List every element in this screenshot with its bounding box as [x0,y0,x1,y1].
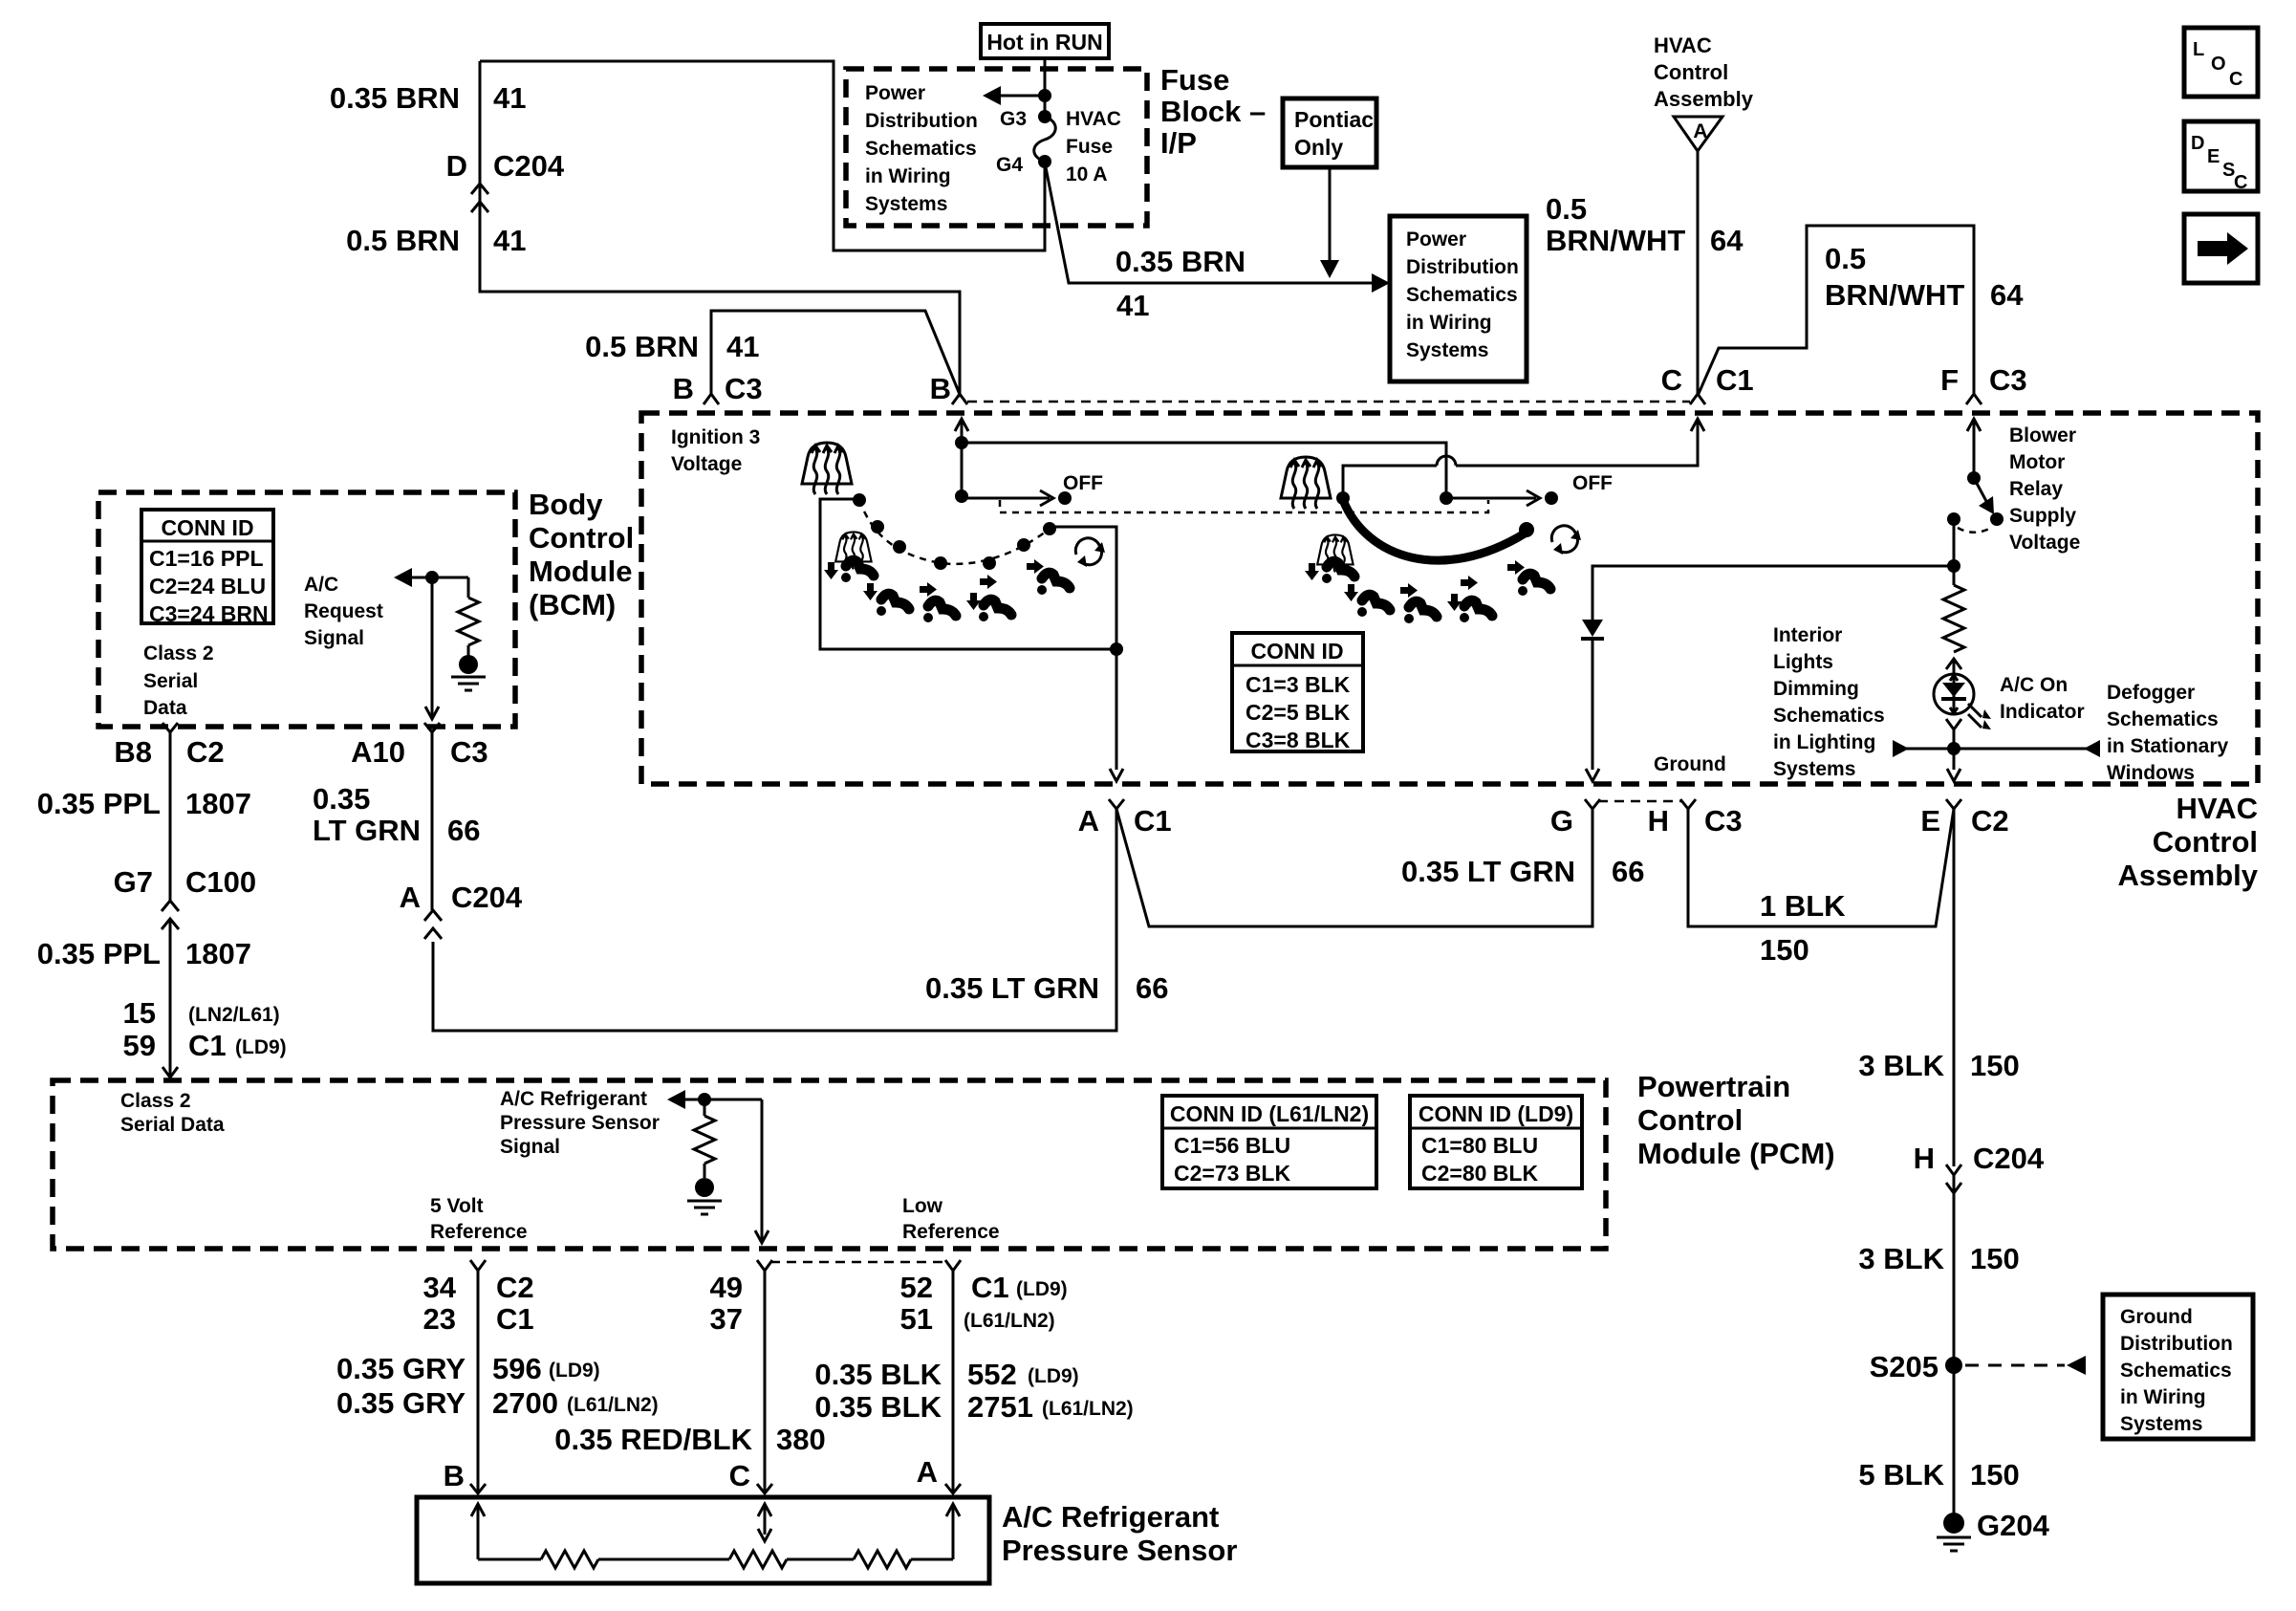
svg-text:C1: C1 [1134,804,1172,838]
svg-text:in Wiring: in Wiring [1406,312,1492,334]
node mode feed [1440,491,1453,505]
connector B chevron [470,1484,486,1493]
box Power Distribution Schematics in Wiring Systems [1390,216,1527,381]
svg-text:41: 41 [493,224,526,257]
box CONN ID (LD9) [1410,1096,1582,1188]
wire relay contact down [1953,519,1956,585]
wire feed from C1 into box [1691,419,1704,431]
svg-text:(LD9): (LD9) [1028,1365,1079,1387]
svg-text:0.35 GRY: 0.35 GRY [336,1352,466,1385]
triangle A [1674,117,1722,151]
svg-text:C100: C100 [185,865,256,899]
svg-text:0.35 LT GRN: 0.35 LT GRN [925,971,1099,1005]
svg-text:C: C [2234,172,2247,193]
dashed travel arc with position dots [859,500,1050,564]
icon mode seat 4b [1460,600,1492,622]
svg-text:Schematics: Schematics [1406,284,1518,306]
svg-text:Voltage: Voltage [671,453,742,475]
svg-text:Motor: Motor [2009,451,2065,473]
svg-text:H: H [1914,1142,1935,1175]
svg-text:L: L [2193,39,2204,60]
svg-text:BRN/WHT: BRN/WHT [1546,224,1685,257]
svg-text:Power: Power [865,82,925,104]
svg-text:0.35 PPL: 0.35 PPL [37,937,161,970]
icon recirculation [1075,538,1105,567]
box Body Control Module dashed [98,492,515,727]
connector 49 / 37 [757,1260,772,1271]
svg-text:C3: C3 [1704,804,1743,838]
svg-text:0.35 RED/BLK: 0.35 RED/BLK [554,1423,752,1456]
svg-text:Indicator: Indicator [2000,701,2085,723]
svg-text:Control: Control [1637,1103,1743,1137]
box Powertrain Control Module dashed [53,1080,1606,1249]
icon mode vent arrow 2 [1400,583,1418,598]
svg-text:Hot in RUN: Hot in RUN [986,30,1102,54]
connector chevron below LED [1946,719,1961,729]
node junction [955,436,968,449]
box A/C Refrigerant Pressure Sensor [417,1497,989,1583]
wire 0.35 BRN 41 from fuse to power distribution [1045,163,1373,283]
box CONN ID (BCM) [141,510,273,623]
svg-text:0.5 BRN: 0.5 BRN [585,330,699,363]
svg-text:150: 150 [1760,933,1809,967]
svg-text:0.35 BLK: 0.35 BLK [814,1358,942,1391]
svg-text:B8: B8 [114,735,152,769]
svg-text:in Wiring: in Wiring [2120,1386,2206,1408]
svg-text:41: 41 [1116,289,1149,322]
svg-text:Module (PCM): Module (PCM) [1637,1137,1835,1170]
box Pontiac Only [1283,98,1376,167]
icon recirculation [1551,526,1581,555]
icon mode feet arrow [863,583,877,600]
svg-text:2751: 2751 [967,1390,1033,1424]
relay switch arm [1967,471,1981,485]
svg-text:G4: G4 [996,154,1023,176]
svg-text:Reference: Reference [430,1221,528,1243]
svg-text:C3: C3 [1989,363,2027,397]
ground (BCM internal) [459,655,478,674]
wire A/C request down [431,577,434,717]
svg-text:Relay: Relay [2009,478,2063,500]
box Ground Distribution Schematics in Wiring Systems [2103,1295,2253,1439]
svg-text:0.35 BRN: 0.35 BRN [1116,245,1245,278]
svg-text:52: 52 [900,1271,933,1304]
potentiometer resistors [478,1558,541,1561]
wire 0.35 LT GRN 66 down to C204 [431,732,434,910]
svg-text:59: 59 [123,1029,156,1062]
connector H C3 [1680,799,1696,809]
svg-text:1807: 1807 [185,787,251,820]
svg-text:Power: Power [1406,229,1466,250]
svg-text:Distribution: Distribution [865,110,978,132]
svg-text:Signal: Signal [304,627,364,649]
svg-text:C3: C3 [450,735,488,769]
svg-text:Control: Control [2153,825,2258,859]
resistor dimming [1943,585,1964,652]
svg-text:552: 552 [967,1358,1017,1391]
svg-text:Signal: Signal [500,1136,560,1158]
svg-text:C1: C1 [188,1029,227,1062]
svg-text:C1=16 PPL: C1=16 PPL [149,546,264,571]
svg-text:CONN ID (L61/LN2): CONN ID (L61/LN2) [1170,1101,1369,1126]
svg-text:Pressure Sensor: Pressure Sensor [1002,1534,1237,1567]
connector B C3 chevron [704,394,719,404]
svg-text:C: C [1661,363,1682,397]
icon mode bilevel arrow down 2 [1447,594,1462,611]
node S205 [1945,1357,1962,1374]
svg-text:C: C [2229,69,2242,90]
svg-text:Systems: Systems [1406,339,1488,361]
svg-text:596: 596 [492,1352,542,1385]
svg-text:LT GRN: LT GRN [313,814,421,847]
connector A C1 [1109,799,1124,809]
svg-text:Control: Control [1654,60,1728,84]
svg-text:66: 66 [1612,855,1644,888]
svg-text:C3=24 BRN: C3=24 BRN [149,601,269,626]
svg-text:(LD9): (LD9) [235,1036,287,1058]
wire 0.35 LT GRN 66 from A C1 down to BCM loop [433,809,1116,1031]
svg-text:Interior: Interior [1773,624,1842,646]
icon mode seat 5 [1037,573,1070,595]
icon mode bilevel arrow right [980,575,997,589]
svg-text:Systems: Systems [1773,758,1855,780]
svg-text:C2: C2 [1971,804,2009,838]
sensor internal wiring [471,1504,485,1516]
connector A10 C3 [424,723,440,732]
icon mode defrost-feet arrow 2 [1305,563,1319,580]
svg-text:Only: Only [1294,135,1343,160]
svg-text:Class 2: Class 2 [120,1090,191,1112]
icon mode vent arrow [920,582,937,597]
svg-text:C1=3 BLK: C1=3 BLK [1245,672,1351,697]
box LOC [2184,28,2258,97]
svg-text:64: 64 [1710,224,1744,257]
svg-text:Systems: Systems [865,193,947,215]
svg-text:Data: Data [143,697,187,719]
thin dashed 49-52 link [770,1261,947,1264]
fuse F HVAC 10 A [1038,110,1051,123]
node wiper feed [955,490,968,503]
svg-text:Schematics: Schematics [2107,708,2219,730]
svg-text:in Wiring: in Wiring [865,165,951,187]
svg-text:G3: G3 [1000,108,1027,130]
connector 59 C1 into PCM [162,1067,178,1078]
svg-text:Voltage: Voltage [2009,532,2080,554]
connector G [1585,799,1600,809]
svg-text:Supply: Supply [2009,505,2076,527]
icon defrost small [1317,534,1353,572]
svg-text:380: 380 [776,1423,826,1456]
svg-text:B: B [673,372,694,405]
svg-text:Class 2: Class 2 [143,642,214,664]
wire signal down [761,1099,764,1241]
wire Pontiac Only arrow down [1329,167,1332,260]
wire down to E C2 [1947,769,1960,781]
svg-text:34: 34 [423,1271,457,1304]
svg-text:23: 23 [423,1302,456,1336]
svg-text:66: 66 [1136,971,1168,1005]
wire 0.5 BRN 41 from D C204 down to B C3 branch [480,61,960,394]
svg-text:5 BLK: 5 BLK [1858,1458,1944,1491]
svg-text:Ignition 3: Ignition 3 [671,426,760,448]
svg-text:C2: C2 [496,1271,534,1304]
svg-text:37: 37 [710,1302,743,1336]
svg-text:F: F [1940,363,1959,397]
dashed line to ground distribution [1965,1364,2065,1367]
connector A chevron [945,1484,961,1493]
svg-text:HVAC: HVAC [1066,108,1121,130]
svg-text:D: D [2191,133,2204,154]
wire dimming reference line [1897,748,2100,751]
svg-text:C2=5 BLK: C2=5 BLK [1245,700,1351,725]
wire 0.5 BRN 41 inner branch to B C3 [711,311,961,397]
wire 0.35 RED/BLK 380 [764,1271,767,1493]
icon mode seat 3b [1404,601,1437,623]
svg-text:Powertrain: Powertrain [1637,1070,1790,1103]
wire feed from F into box [1967,419,1981,431]
svg-text:Pressure Sensor: Pressure Sensor [500,1112,660,1134]
svg-text:G204: G204 [1977,1509,2050,1542]
svg-text:CONN ID (LD9): CONN ID (LD9) [1419,1101,1573,1126]
wire hop over [1437,456,1456,466]
svg-text:C204: C204 [1973,1142,2045,1175]
svg-text:15: 15 [123,996,156,1030]
svg-text:C1=56 BLU: C1=56 BLU [1174,1133,1290,1158]
svg-text:Lights: Lights [1773,651,1833,673]
svg-text:C1=80 BLU: C1=80 BLU [1421,1133,1538,1158]
wire arrow to OFF [962,497,1050,500]
svg-text:Distribution: Distribution [1406,256,1519,278]
icon mode bilevel arrow down [966,593,981,610]
svg-text:(L61/LN2): (L61/LN2) [567,1394,659,1416]
svg-text:B: B [930,372,951,405]
svg-text:41: 41 [493,81,526,115]
wire from last contact down to A C1 [1050,527,1116,770]
svg-text:C2=80 BLK: C2=80 BLK [1421,1161,1538,1186]
svg-text:C3=8 BLK: C3=8 BLK [1245,728,1351,752]
svg-text:A/C On: A/C On [2000,674,2068,696]
wire 0.35 PPL 1807 [169,732,172,901]
svg-text:D: D [446,149,467,183]
connector E C2 [1946,799,1961,809]
svg-text:I/P: I/P [1160,126,1197,160]
box DESC [2184,121,2258,191]
svg-text:Blower: Blower [2009,425,2076,446]
svg-text:66: 66 [447,814,480,847]
icon mode seat 2 [877,594,909,616]
svg-text:E: E [2207,146,2220,167]
svg-text:A/C Refrigerant: A/C Refrigerant [1002,1500,1219,1534]
svg-text:A: A [1078,804,1099,838]
box CONN ID (HVAC) [1232,633,1363,751]
thin dashed G-H link [1598,800,1682,803]
svg-text:C1: C1 [496,1302,534,1336]
svg-text:Request: Request [304,600,383,622]
svg-text:H: H [1648,804,1669,838]
node OFF position [1058,491,1072,505]
svg-text:HVAC: HVAC [2176,792,2258,825]
svg-text:Ground: Ground [2120,1306,2193,1328]
connector C C1 [1690,394,1705,404]
svg-text:3 BLK: 3 BLK [1858,1049,1944,1082]
svg-text:A10: A10 [351,735,405,769]
svg-text:150: 150 [1970,1049,2020,1082]
svg-text:Schematics: Schematics [2120,1360,2232,1382]
wire 0.35 GRY [477,1271,480,1493]
svg-text:150: 150 [1970,1242,2020,1275]
svg-text:Pontiac: Pontiac [1294,107,1374,132]
svg-text:Reference: Reference [902,1221,1000,1243]
connector F C3 [1966,394,1982,404]
node OFF position [1545,491,1558,505]
svg-text:Schematics: Schematics [865,138,977,160]
svg-text:BRN/WHT: BRN/WHT [1825,278,1964,312]
svg-text:C3: C3 [725,372,763,405]
icon defrost large [802,443,852,494]
svg-text:B: B [444,1459,465,1492]
svg-text:0.35: 0.35 [313,782,370,816]
icon mode seat 1 [841,560,874,582]
wire 0.35 LT GRN 66 from A C1 to G [1116,809,1592,926]
svg-text:5 Volt: 5 Volt [430,1195,484,1217]
box arrow legend [2184,214,2258,283]
svg-text:0.35 GRY: 0.35 GRY [336,1386,466,1420]
svg-text:Fuse: Fuse [1160,63,1229,97]
icon mode face arrow [1027,559,1044,574]
svg-text:in Lighting: in Lighting [1773,731,1875,753]
svg-text:C204: C204 [493,149,565,183]
svg-text:C2: C2 [186,735,225,769]
svg-text:C204: C204 [451,881,523,914]
svg-text:(L61/LN2): (L61/LN2) [964,1310,1055,1332]
node tap with left arrow [1038,89,1051,102]
svg-text:(LD9): (LD9) [1016,1278,1068,1300]
icon mode seat 4 [979,599,1011,621]
svg-text:OFF: OFF [1572,472,1613,494]
svg-text:0.35 BRN: 0.35 BRN [330,81,460,115]
icon defrost large [1281,457,1331,509]
svg-text:E: E [1920,804,1940,838]
svg-text:0.35 PPL: 0.35 PPL [37,787,161,820]
svg-text:64: 64 [1990,278,2024,312]
svg-text:C2=24 BLU: C2=24 BLU [149,574,266,599]
box Hot in RUN [981,24,1109,58]
wire to mode switch feed [962,443,1446,498]
connector 52 C1 / 51 [945,1260,961,1271]
svg-text:Control: Control [529,521,634,555]
wire diode to ground pin G [1592,639,1594,770]
svg-text:C: C [729,1459,750,1492]
wire 3 BLK 150 lower [1953,1175,1956,1523]
svg-text:(LD9): (LD9) [549,1360,600,1382]
wire 1 BLK 150 from H to E [1688,809,1954,926]
svg-text:HVAC: HVAC [1654,33,1712,57]
connector chevron below resistor [1946,659,1961,669]
svg-text:49: 49 [710,1271,743,1304]
wire feed from B into box [955,419,968,431]
svg-text:Assembly: Assembly [2118,859,2259,892]
svg-text:C1: C1 [971,1271,1009,1304]
svg-text:10 A: 10 A [1066,163,1108,185]
svg-text:(LN2/L61): (LN2/L61) [188,1004,280,1026]
connector C chevron [757,1484,772,1493]
svg-text:C1: C1 [1716,363,1754,397]
svg-text:CONN ID: CONN ID [1250,639,1343,664]
svg-text:A: A [917,1455,938,1489]
icon mode seat 3 [923,600,956,622]
resistor pullup (PCM) [704,1099,706,1116]
svg-text:Dimming: Dimming [1773,678,1859,700]
svg-text:Schematics: Schematics [1773,705,1885,727]
wire BRN/WHT 64 from triangle to C C1 [1697,151,1700,394]
icon mode seat 5b [1518,574,1550,596]
wire fan switch contact [820,499,1116,649]
svg-text:in Stationary: in Stationary [2107,735,2229,757]
wire 0.5 BRN/WHT 64 from C1 to F C3 [1698,226,1974,396]
svg-text:A: A [400,881,421,914]
svg-text:S205: S205 [1870,1350,1939,1383]
thin dashed connector line across top [967,401,1690,403]
wire 0.35 BLK [952,1271,955,1493]
LED A/C On indicator [1934,674,1974,714]
wire 3 BLK 150 from E C2 [1953,809,1956,1166]
svg-text:Block –: Block – [1160,95,1266,128]
svg-text:A: A [1693,120,1707,142]
thin dashed OFF link [1000,500,1488,512]
svg-text:Systems: Systems [2120,1413,2202,1435]
connector B (right) chevron [952,394,967,404]
connector A C204 inline [424,910,442,921]
dashed box Power Distribution Schematics in Wiring Systems [846,69,1147,226]
svg-text:Low: Low [902,1195,943,1217]
svg-text:G: G [1550,804,1573,838]
icon defrost small [835,532,871,569]
connector 34 C2 / 23 C1 [470,1260,486,1271]
wire 0.35 PPL 1807 lower [169,919,172,1078]
svg-text:150: 150 [1970,1458,2020,1491]
svg-text:(BCM): (BCM) [529,588,616,621]
connector B8 C2 [162,723,178,732]
box HVAC Control Assembly dashed [641,413,2258,784]
svg-text:Windows: Windows [2107,762,2195,784]
svg-text:Assembly: Assembly [1654,87,1754,111]
svg-text:Fuse: Fuse [1066,136,1113,158]
svg-text:0.5: 0.5 [1825,242,1866,275]
svg-text:Defogger: Defogger [2107,682,2195,704]
wire arrow to OFF [1446,497,1536,500]
svg-text:Serial: Serial [143,670,198,692]
connector G7 C100 inline [162,901,179,911]
icon mode seat 1b [1322,561,1354,583]
svg-text:OFF: OFF [1063,472,1103,494]
node wiper [1336,491,1350,505]
wire 0.35 BRN 41 loop from fuse to C204 [480,61,1045,250]
icon mode defrost-feet arrow [824,562,838,579]
svg-text:0.35 BLK: 0.35 BLK [814,1390,942,1424]
ground (PCM internal) [695,1178,714,1197]
wire from Hot in RUN to fuse [1044,58,1047,117]
svg-text:51: 51 [900,1302,933,1336]
svg-text:0.35 LT GRN: 0.35 LT GRN [1401,855,1575,888]
connector D C204 inline [471,184,488,194]
svg-text:Module: Module [529,555,633,588]
svg-text:A/C Refrigerant: A/C Refrigerant [500,1088,647,1110]
svg-text:(L61/LN2): (L61/LN2) [1042,1398,1134,1420]
connector H C204 inline [1946,1165,1961,1175]
svg-text:Ground: Ground [1654,753,1726,775]
svg-text:Serial Data: Serial Data [120,1114,225,1136]
box CONN ID (L61/LN2) [1162,1096,1376,1188]
